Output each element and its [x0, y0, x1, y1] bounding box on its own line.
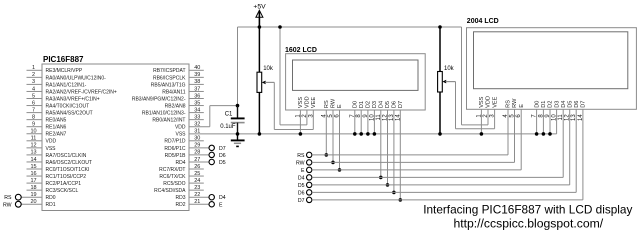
LCD2 pin number 9 — [545, 114, 551, 118]
pin 33 RB0/AN12/INT — [152, 114, 203, 123]
LCD2 pin label D4 — [561, 101, 567, 108]
svg-text:7: 7 — [32, 107, 35, 113]
wire LCD2 VEE pin3 to pot wiper — [445, 82, 494, 129]
LCD1 1602 body — [286, 54, 426, 110]
svg-text:10k: 10k — [444, 66, 455, 72]
svg-text:12: 12 — [30, 143, 36, 149]
junction RV1 at ground rail — [258, 132, 262, 136]
svg-text:D1: D1 — [359, 101, 365, 108]
LCD1 pin number 2 — [302, 114, 308, 118]
LCD1 pin label D2 — [366, 101, 372, 108]
pin 35 RB2/AN8 — [165, 100, 204, 109]
svg-text:10: 10 — [552, 114, 558, 121]
svg-text:RS: RS — [324, 100, 330, 108]
svg-text:1: 1 — [32, 65, 35, 71]
svg-text:39: 39 — [194, 72, 200, 78]
LCD1 pin label D5 — [385, 101, 391, 108]
svg-text:RB7/ICSPDAT: RB7/ICSPDAT — [153, 68, 185, 74]
wire LCD1 D3 pin10 to ground — [373, 110, 377, 136]
svg-text:11: 11 — [31, 136, 37, 142]
capacitor C1 plates — [231, 118, 245, 122]
LCD2 pin number 11 — [558, 114, 564, 121]
wire LCD2 RW to bus — [514, 109, 516, 162]
LCD1 pin number 11 — [376, 114, 382, 121]
resistor RV1 bottom lead — [258, 92, 260, 133]
svg-text:19: 19 — [30, 192, 36, 198]
LCD2 pin label VDD — [486, 96, 492, 108]
wire LCD1 D5 to bus — [386, 110, 390, 187]
LCD2 pin label D6 — [574, 101, 580, 108]
svg-text:D5: D5 — [385, 101, 391, 108]
svg-text:38: 38 — [194, 79, 200, 85]
LCD1 pin number 7 — [350, 114, 356, 118]
svg-text:24: 24 — [194, 178, 200, 184]
svg-text:RE0/AN5: RE0/AN5 — [46, 118, 67, 124]
LCD2 pin label D7 — [581, 101, 587, 108]
pin 25 RC6/TX/CK — [159, 171, 203, 180]
svg-text:VDD: VDD — [305, 96, 311, 108]
svg-text:34: 34 — [194, 107, 200, 113]
svg-text:http://ccspicc.blogspot.com/: http://ccspicc.blogspot.com/ — [453, 216, 603, 230]
pin 6 RA4/T0CKI/C1OUT — [27, 100, 90, 109]
junction RV2 at ground rail — [438, 132, 442, 136]
LCD2 pin label D3 — [554, 101, 560, 108]
svg-text:C1: C1 — [225, 111, 233, 117]
svg-text:RC5/SDO: RC5/SDO — [163, 181, 185, 187]
resistor RV2 bottom lead — [439, 92, 441, 134]
svg-text:29: 29 — [194, 143, 200, 149]
svg-text:RC2/P1A/CCP1: RC2/P1A/CCP1 — [46, 181, 82, 187]
svg-text:RA5/AN4/SS/C2OUT: RA5/AN4/SS/C2OUT — [46, 111, 93, 117]
LCD1 pin label VDD — [305, 96, 311, 108]
pin 31 VSS — [175, 129, 200, 138]
power +5V arrow — [256, 10, 263, 27]
resistor RV2 10k label — [444, 66, 455, 72]
svg-text:RB1/AN10/C12IN3-: RB1/AN10/C12IN3- — [142, 111, 186, 117]
pin 17 RC2/P1A/CCP1 — [27, 178, 82, 187]
LCD2 pin number 4 — [503, 114, 509, 118]
svg-text:D1: D1 — [541, 101, 547, 108]
svg-text:40: 40 — [194, 65, 200, 71]
pin 2 RA0/AN0/ULPWU/C12IN0- — [27, 72, 107, 81]
LCD1 pin label D1 — [359, 101, 365, 108]
pin 21 RD2 — [175, 199, 208, 208]
svg-text:14: 14 — [30, 157, 36, 163]
bus node D7 — [298, 197, 583, 204]
svg-text:RB4/AN11: RB4/AN11 — [162, 89, 185, 95]
pin 36 RB3/AN9/PGM/C12IN2- — [132, 93, 204, 102]
wire LCD2 D6 to bus — [575, 109, 577, 192]
svg-text:RD5/P1B: RD5/P1B — [165, 153, 187, 159]
pin 32 VDD — [175, 122, 200, 131]
resistor RV2 top lead — [439, 27, 441, 72]
label 0.1uF — [220, 124, 236, 130]
svg-text:VDD: VDD — [175, 125, 186, 131]
svg-text:8: 8 — [32, 114, 35, 120]
svg-text:D4: D4 — [561, 101, 567, 108]
wire +5V rail — [238, 27, 462, 106]
wire LCD2 VSS pin1 to ground — [480, 109, 484, 135]
svg-text:RB0/AN12/INT: RB0/AN12/INT — [152, 118, 185, 124]
wire LCD2 D5 to bus — [569, 109, 571, 185]
node D5 (pin 27) — [209, 159, 226, 166]
svg-text:Interfacing PIC16F887 with LCD: Interfacing PIC16F887 with LCD display — [423, 202, 632, 216]
svg-text:D3: D3 — [372, 101, 378, 108]
LCD1 pin number 13 — [389, 114, 395, 121]
LCD2 pin number 10 — [552, 114, 558, 121]
pin 27 RD4 — [175, 157, 208, 166]
LCD2 2004 label — [467, 18, 499, 25]
LCD1 pin number 3 — [308, 114, 314, 118]
wire LCD2 D1 pin8 to ground — [542, 109, 546, 135]
LCD2 pin number 1 — [476, 114, 482, 118]
svg-text:6: 6 — [32, 100, 35, 106]
LCD2 pin number 12 — [565, 114, 571, 121]
pin 38 RB5/AN13/T1G — [151, 79, 204, 88]
LCD1 pin number 10 — [369, 114, 375, 121]
svg-text:20: 20 — [30, 199, 36, 205]
svg-text:D7: D7 — [581, 101, 587, 108]
svg-text:RD7/P1D: RD7/P1D — [164, 139, 186, 145]
LCD1 pin label D4 — [379, 101, 385, 108]
svg-text:RW: RW — [296, 160, 305, 166]
LCD2 pin label D2 — [548, 101, 554, 108]
svg-text:RB3/AN9/PGM/C12IN2-: RB3/AN9/PGM/C12IN2- — [132, 96, 186, 102]
svg-text:RE3/MCLR/VPP: RE3/MCLR/VPP — [46, 68, 83, 74]
ground symbol — [231, 134, 245, 147]
LCD1 pin label D7 — [398, 101, 404, 108]
resistor RV1 body — [257, 72, 262, 92]
LCD2 pin number 8 — [538, 114, 544, 118]
svg-text:RD0: RD0 — [46, 195, 56, 201]
svg-text:E: E — [337, 104, 343, 108]
wire LCD1 D1 pin8 to ground — [359, 110, 363, 136]
svg-text:D7: D7 — [298, 198, 305, 204]
svg-text:22: 22 — [194, 192, 200, 198]
LCD1 pin number 8 — [356, 114, 362, 118]
svg-text:16: 16 — [30, 171, 36, 177]
capacitor C1 top lead — [237, 106, 239, 118]
svg-text:10k: 10k — [263, 66, 274, 72]
bus node RW — [296, 160, 515, 167]
svg-text:RA2/AN2/VREF-/CVREF/C2IN+: RA2/AN2/VREF-/CVREF/C2IN+ — [46, 89, 117, 95]
svg-text:RW: RW — [512, 98, 518, 108]
pin 12 VSS — [27, 143, 57, 152]
wire LCD2 E to bus — [520, 109, 522, 170]
LCD2 pin number 13 — [571, 114, 577, 121]
wire LCD2 VDD pin2 to rail — [462, 27, 489, 125]
wire LCD2 D7 to bus — [582, 109, 584, 200]
pin 3 RA1/AN1/C12IN1- — [27, 79, 87, 88]
LCD2 pin label D1 — [541, 101, 547, 108]
svg-text:13: 13 — [30, 150, 36, 156]
svg-text:E: E — [519, 104, 525, 108]
pin 1 RE3/MCLR/VPP — [27, 65, 83, 74]
wire LCD1 RW to bus — [331, 110, 335, 164]
pin 29 RD6/P1C — [164, 143, 208, 152]
svg-text:E: E — [301, 168, 305, 174]
svg-text:17: 17 — [30, 178, 36, 184]
pin 10 RE2/AN7 — [27, 129, 67, 138]
svg-text:RA4/T0CKI/C1OUT: RA4/T0CKI/C1OUT — [46, 103, 90, 109]
pin 30 RD7/P1D — [164, 136, 203, 145]
LCD2 pin label D5 — [567, 101, 573, 108]
junction LCD1 VDD at rail — [278, 25, 282, 29]
svg-text:D0: D0 — [534, 101, 540, 108]
svg-text:D7: D7 — [219, 146, 226, 152]
svg-text:2: 2 — [32, 72, 35, 78]
pin 9 RE1/AN6 — [27, 122, 67, 131]
svg-text:RD1: RD1 — [46, 202, 56, 208]
svg-text:RC3/SCK/SCL: RC3/SCK/SCL — [46, 188, 79, 194]
svg-text:D2: D2 — [548, 101, 554, 108]
LCD2 pin label D0 — [534, 101, 540, 108]
wire LCD2 D0 pin7 to ground — [535, 109, 539, 135]
pin 20 RD1 — [21, 199, 55, 208]
LCD2 pin number 6 — [516, 114, 522, 118]
wire LCD1 D7 to bus — [399, 110, 403, 202]
LCD2 pin label E — [519, 104, 525, 108]
svg-text:10: 10 — [30, 129, 36, 135]
svg-text:RS: RS — [297, 153, 305, 159]
LCD2 pin label VSS — [479, 96, 485, 107]
svg-text:RD2: RD2 — [175, 202, 185, 208]
svg-text:3: 3 — [32, 79, 35, 85]
wire LCD1 VDD pin2 to +5V — [280, 27, 307, 125]
LCD2 pin label RW — [512, 98, 518, 108]
LCD1 pin number 6 — [335, 114, 341, 118]
LCD1 pin label RS — [324, 100, 330, 108]
svg-text:VEE: VEE — [311, 97, 317, 108]
LCD1 1602 label — [285, 47, 317, 54]
svg-text:33: 33 — [194, 114, 200, 120]
LCD1 pin label RW — [331, 98, 337, 108]
bus node D4 — [298, 175, 563, 182]
pin 13 RA7/OSC1/CLKIN — [27, 150, 87, 159]
svg-text:VSS: VSS — [175, 132, 186, 138]
resistor RV2 wiper arrow — [442, 80, 455, 84]
svg-text:27: 27 — [194, 157, 200, 163]
LCD2 pin number 14 — [578, 114, 584, 121]
svg-text:VEE: VEE — [492, 96, 498, 107]
svg-text:D2: D2 — [366, 101, 372, 108]
svg-text:+5V: +5V — [253, 3, 266, 10]
LCD1 pin number 9 — [363, 114, 369, 118]
pin 8 RE0/AN5 — [27, 114, 67, 123]
node RS (RD0 pin 19) — [4, 194, 21, 201]
svg-text:RS: RS — [506, 100, 512, 108]
LCD1 pin label VEE — [311, 97, 317, 108]
svg-text:5: 5 — [32, 93, 35, 99]
wire LCD1 VSS pin1 to ground — [299, 110, 303, 136]
LCD1 pin label D6 — [392, 101, 398, 108]
LCD2 2004 body — [467, 28, 637, 110]
pin 40 RB7/ICSPDAT — [153, 65, 204, 74]
LCD2 pin number 7 — [532, 114, 538, 118]
LCD2 2004 screen — [474, 32, 628, 89]
svg-text:RA1/AN1/C12IN1-: RA1/AN1/C12IN1- — [46, 82, 87, 88]
svg-text:D5: D5 — [298, 183, 305, 189]
wire LCD2 D2 pin9 to ground — [548, 109, 552, 135]
svg-text:RA6/OSC2/CLKOUT: RA6/OSC2/CLKOUT — [46, 160, 92, 166]
wire VDD pin32 to rail drop — [189, 106, 238, 127]
svg-text:RC0/T1OSO/T1CKI: RC0/T1OSO/T1CKI — [46, 167, 90, 173]
pin 26 RC7/RX/DT — [159, 164, 204, 173]
svg-text:VSS: VSS — [479, 96, 485, 107]
svg-text:15: 15 — [30, 164, 36, 170]
svg-text:D6: D6 — [392, 101, 398, 108]
pin 24 RC5/SDO — [163, 178, 204, 187]
svg-text:D4: D4 — [379, 101, 385, 108]
svg-text:9: 9 — [32, 122, 35, 128]
svg-text:D6: D6 — [219, 153, 226, 159]
svg-text:0.1uF: 0.1uF — [220, 124, 236, 130]
IC U1 PIC16F887 body — [42, 64, 189, 211]
node D4 (pin 22) — [209, 195, 226, 202]
LCD2 pin number 3 — [490, 114, 496, 118]
wire LCD1 D6 to bus — [392, 110, 396, 194]
svg-text:VDD: VDD — [46, 139, 57, 145]
LCD2 pin number 5 — [510, 114, 516, 118]
svg-text:21: 21 — [194, 199, 200, 205]
IC U1 label PIC16F887 — [43, 55, 84, 64]
wire LCD2 D4 to bus — [562, 109, 564, 177]
pin 22 RD3 — [175, 192, 208, 201]
node D7 (pin 29) — [209, 145, 226, 152]
LCD2 pin number 2 — [483, 114, 489, 118]
node RW (RD1 pin 20) — [3, 201, 21, 208]
svg-text:D3: D3 — [554, 101, 560, 108]
resistor RV1 wiper arrow — [262, 81, 275, 85]
LCD1 pin number 4 — [321, 114, 327, 118]
svg-text:RW: RW — [3, 202, 12, 208]
svg-text:30: 30 — [194, 136, 200, 142]
wire LCD1 D4 to bus — [379, 110, 383, 179]
pin 34 RB1/AN10/C12IN3- — [142, 107, 204, 116]
pin 19 RD0 — [21, 192, 55, 201]
svg-text:RB5/AN13/T1G: RB5/AN13/T1G — [151, 82, 186, 88]
caption line 1 — [423, 202, 632, 216]
svg-text:RS: RS — [4, 195, 12, 201]
svg-text:RB2/AN8: RB2/AN8 — [165, 103, 186, 109]
capacitor C1 bottom lead — [237, 123, 239, 134]
resistor RV1 top lead — [258, 27, 260, 72]
LCD1 pin label D0 — [353, 101, 359, 108]
pin 4 RA2/AN2/VREF-/CVREF/C2IN+ — [27, 86, 117, 95]
resistor RV2 body — [438, 72, 443, 93]
LCD1 pin number 14 — [395, 114, 401, 121]
svg-text:RA7/OSC1/CLKIN: RA7/OSC1/CLKIN — [46, 153, 87, 159]
pin 14 RA6/OSC2/CLKOUT — [27, 157, 92, 166]
svg-text:RA3/AN3/VREF+/C1IN+: RA3/AN3/VREF+/C1IN+ — [46, 96, 100, 102]
LCD1 pin number 12 — [383, 114, 389, 121]
junction C1 at ground rail — [236, 132, 240, 136]
svg-text:D4: D4 — [298, 175, 305, 181]
pin 39 RB6/ICSPCLK — [153, 72, 204, 81]
svg-text:D5: D5 — [219, 160, 226, 166]
wire LCD1 D2 pin9 to ground — [366, 110, 370, 136]
LCD2 pin label VEE — [492, 96, 498, 107]
svg-text:VSS: VSS — [298, 97, 304, 108]
pin 28 RD5/P1B — [165, 150, 209, 159]
svg-text:2004 LCD: 2004 LCD — [467, 18, 499, 25]
wire ground rail (VSS pin31) — [189, 109, 557, 134]
svg-text:4: 4 — [32, 86, 35, 92]
svg-text:1602 LCD: 1602 LCD — [285, 47, 317, 54]
svg-text:PIC16F887: PIC16F887 — [43, 55, 84, 64]
svg-text:RC7/RX/DT: RC7/RX/DT — [159, 167, 185, 173]
bus node D6 — [298, 190, 576, 197]
pin 18 RC3/SCK/SCL — [27, 185, 79, 194]
pin 37 RB4/AN11 — [162, 86, 204, 95]
svg-text:36: 36 — [194, 93, 200, 99]
svg-text:28: 28 — [194, 150, 200, 156]
svg-text:37: 37 — [194, 86, 200, 92]
svg-text:RE2/AN7: RE2/AN7 — [46, 132, 67, 138]
junction +5V at rail — [258, 25, 262, 29]
svg-text:D6: D6 — [298, 190, 305, 196]
svg-text:26: 26 — [194, 164, 200, 170]
svg-text:RD6/P1C: RD6/P1C — [164, 146, 186, 152]
LCD1 pin label D3 — [372, 101, 378, 108]
svg-text:RC4/SDI/SDA: RC4/SDI/SDA — [154, 188, 186, 194]
svg-text:E: E — [219, 202, 223, 208]
svg-text:RD3: RD3 — [175, 195, 185, 201]
LCD1 pin label E — [337, 104, 343, 108]
svg-text:VSS: VSS — [46, 146, 57, 152]
svg-text:35: 35 — [194, 100, 200, 106]
svg-text:VDD: VDD — [486, 96, 492, 108]
LCD1 pin number 5 — [328, 114, 334, 118]
wire LCD1 RS to bus — [325, 110, 329, 157]
svg-text:RE1/AN6: RE1/AN6 — [46, 125, 67, 131]
bus node D5 — [298, 182, 570, 189]
caption line 2 — [453, 216, 603, 230]
svg-text:D6: D6 — [574, 101, 580, 108]
power +5V label — [253, 3, 266, 10]
svg-text:RW: RW — [331, 98, 337, 108]
svg-text:23: 23 — [194, 185, 200, 191]
pin 11 VDD — [27, 136, 57, 145]
LCD1 pin number 1 — [295, 114, 301, 118]
pin 7 RA5/AN4/SS/C2OUT — [27, 107, 93, 116]
LCD1 1602 screen — [293, 60, 419, 90]
wire LCD1 VEE pin3 to pot wiper — [265, 82, 313, 129]
svg-text:RA0/AN0/ULPWU/C12IN0-: RA0/AN0/ULPWU/C12IN0- — [46, 75, 107, 81]
pin 23 RC4/SDI/SDA — [154, 185, 204, 194]
LCD1 pin label VSS — [298, 97, 304, 108]
node D6 (pin 28) — [209, 152, 226, 159]
junction RV2 at rail — [438, 25, 442, 29]
wire LCD2 RS to bus — [507, 109, 509, 155]
pin 5 RA3/AN3/VREF+/C1IN+ — [27, 93, 100, 102]
svg-text:D4: D4 — [219, 195, 226, 201]
svg-text:RD4: RD4 — [175, 160, 185, 166]
label C1 — [225, 111, 233, 117]
svg-text:D0: D0 — [353, 101, 359, 108]
resistor RV1 10k label — [263, 66, 274, 72]
junction pin32 VDD node — [236, 104, 240, 108]
wire LCD1 E to bus — [338, 110, 342, 172]
svg-text:25: 25 — [194, 171, 200, 177]
bus node E — [301, 167, 521, 174]
svg-text:D7: D7 — [398, 101, 404, 108]
svg-text:RC1/T1OSI/CCP2: RC1/T1OSI/CCP2 — [46, 174, 87, 180]
pin 15 RC0/T1OSO/T1CKI — [27, 164, 90, 173]
svg-text:RB6/ICSPCLK: RB6/ICSPCLK — [153, 75, 186, 81]
LCD2 pin label RS — [506, 100, 512, 108]
bus node RS — [297, 152, 508, 159]
